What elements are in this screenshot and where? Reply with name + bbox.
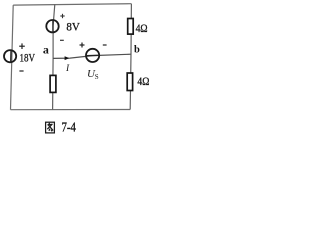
resistor 4ohm bottom-right <box>127 73 132 91</box>
svg-text:S: S <box>95 73 99 81</box>
wire: top border <box>13 4 131 5</box>
plus sign of 18V <box>19 43 25 49</box>
svg-text:4Ω: 4Ω <box>137 76 149 88</box>
svg-text:a: a <box>43 43 49 57</box>
svg-text:8V: 8V <box>66 21 80 33</box>
minus sign of 8V <box>60 39 64 41</box>
svg-text:18V: 18V <box>20 50 36 64</box>
current arrow I <box>65 56 70 60</box>
minus sign of 18V <box>19 70 23 72</box>
resistor 4ohm top-right <box>128 19 134 35</box>
wire: bottom border <box>11 109 131 111</box>
plus sign of US <box>80 43 85 48</box>
voltage source US circle <box>86 49 99 62</box>
plus sign of 8V <box>60 14 64 18</box>
wire: left border <box>11 5 14 110</box>
resistor middle (unlabeled) <box>50 75 56 92</box>
minus sign of US <box>103 44 107 46</box>
wire: right border <box>130 4 131 110</box>
polarity bar of US <box>86 54 100 56</box>
svg-text:4Ω: 4Ω <box>136 23 148 35</box>
wire: middle horizontal branch a-b <box>53 54 131 58</box>
polarity bar of 8V <box>52 20 54 33</box>
voltage source 18V circle <box>4 50 16 62</box>
wire: middle vertical branch <box>53 4 55 109</box>
svg-text:7-4: 7-4 <box>62 121 77 136</box>
polarity bar of 18V <box>10 50 12 63</box>
svg-text:b: b <box>134 45 140 56</box>
caption glyph tu (figure) <box>46 122 55 133</box>
voltage source 8V circle <box>46 20 58 32</box>
